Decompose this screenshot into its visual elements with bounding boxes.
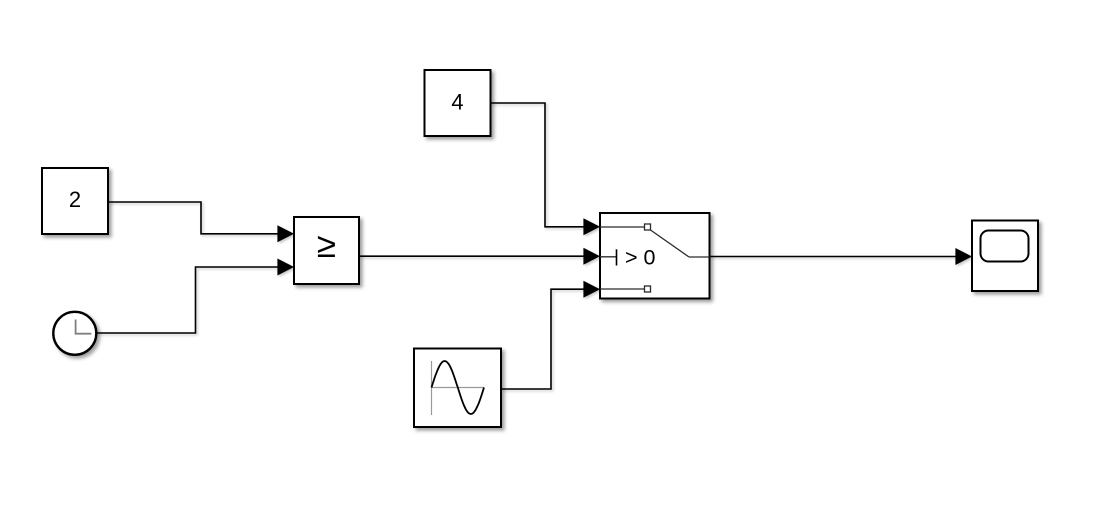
arrowhead at Switch input 1 (583, 218, 600, 235)
constant block "4" (425, 70, 491, 136)
wire from Clock to Relational Operator input 2 (97, 267, 280, 333)
sine axes (431, 361, 433, 415)
arrowhead at Relational Operator input 2 (277, 259, 294, 276)
clock block (53, 312, 96, 355)
arrowhead at Scope input (955, 248, 972, 265)
switch input 3 contact square (645, 286, 651, 292)
switch arm (diagonal) (651, 230, 690, 257)
svg-text:4: 4 (451, 90, 463, 115)
sine curve (432, 361, 485, 414)
switch control internal line (600, 256, 617, 258)
wire from Sine Wave to Switch input 3 (501, 289, 585, 389)
switch threshold tick (616, 249, 618, 265)
wire from Constant "4" to Switch input 1 (491, 103, 586, 227)
wire from Constant "2" to Relational Operator input 1 (108, 202, 279, 234)
switch block (600, 213, 710, 299)
svg-text:2: 2 (69, 187, 81, 212)
scope block (972, 221, 1038, 292)
arrowhead at Relational Operator input 1 (277, 225, 294, 242)
relational operator block ">=" (294, 217, 359, 284)
switch input 1 contact square (645, 224, 651, 230)
svg-text:> 0: > 0 (625, 245, 656, 269)
wire from Switch output to Scope input (710, 256, 958, 258)
svg-text:≥: ≥ (317, 226, 336, 265)
arrowhead at Switch input 3 (583, 281, 600, 298)
scope screen (981, 231, 1029, 262)
switch input 1 internal line (600, 226, 645, 228)
constant block "2" (42, 168, 108, 234)
sine wave block (414, 349, 501, 428)
clock hands (76, 320, 92, 334)
wire from Relational Operator output to Switch input 2 (359, 255, 585, 257)
switch input 3 internal line (600, 288, 645, 290)
switch output internal line (689, 256, 710, 258)
arrowhead at Switch input 2 (583, 248, 600, 265)
